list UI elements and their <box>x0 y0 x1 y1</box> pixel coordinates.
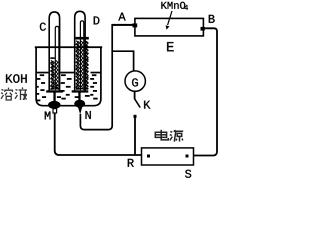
KOH label <box>6 74 27 83</box>
liquid level line inside C <box>50 57 54 59</box>
electrode M connector square <box>53 109 57 113</box>
test tube D <box>75 11 85 92</box>
power source box <box>142 148 194 165</box>
electrode N blob <box>74 100 85 108</box>
电源 label <box>155 130 183 142</box>
wire A horizontal <box>111 24 132 26</box>
tube E left terminal <box>133 23 138 27</box>
label D <box>94 17 100 25</box>
liquid surface line in beaker <box>36 72 101 74</box>
tube E right terminal <box>201 27 205 31</box>
label E <box>167 42 174 51</box>
label N <box>86 111 91 119</box>
溶液 label <box>1 87 27 100</box>
label M <box>45 112 51 120</box>
electrode N stem below mouth <box>78 92 80 100</box>
KMnO4 label <box>161 2 185 9</box>
galvanometer G <box>125 71 145 91</box>
tube D mouth <box>72 90 89 92</box>
wire B to right and down <box>194 28 218 155</box>
liquid dashes right region <box>75 74 98 99</box>
electrode M stem below mouth <box>53 92 55 101</box>
wire N down right up <box>80 25 112 130</box>
label R <box>128 159 134 167</box>
KMnO4 arrow <box>168 11 172 25</box>
electrode M blob <box>48 101 61 109</box>
wire M down to bottom <box>55 113 141 155</box>
power right terminal <box>186 155 189 158</box>
tube E <box>135 18 204 36</box>
squiggles inside C <box>51 60 54 89</box>
branch junction to G <box>112 51 134 70</box>
electrode N point <box>78 107 82 115</box>
power left terminal <box>147 155 150 158</box>
switch K lower contact <box>134 115 137 118</box>
electrode rod in C <box>55 26 59 90</box>
test tube C <box>49 12 59 92</box>
label K <box>144 101 150 109</box>
squiggles inside D right channel <box>85 41 88 90</box>
electrode rod in D <box>80 21 83 91</box>
liquid dashes left region <box>36 74 46 101</box>
label A <box>118 13 125 21</box>
liquid band inside D <box>76 37 89 40</box>
tube C mouth <box>46 90 63 92</box>
label B <box>209 15 215 23</box>
wire K down <box>134 118 136 156</box>
liquid dashes middle region <box>57 74 72 99</box>
wire G bottom stub <box>134 91 136 99</box>
marks inside D rod <box>76 44 89 90</box>
switch K blade <box>134 99 140 108</box>
label C <box>40 23 46 31</box>
beaker <box>35 46 102 105</box>
squiggles inside D left channel <box>76 41 79 90</box>
label S <box>185 170 191 178</box>
